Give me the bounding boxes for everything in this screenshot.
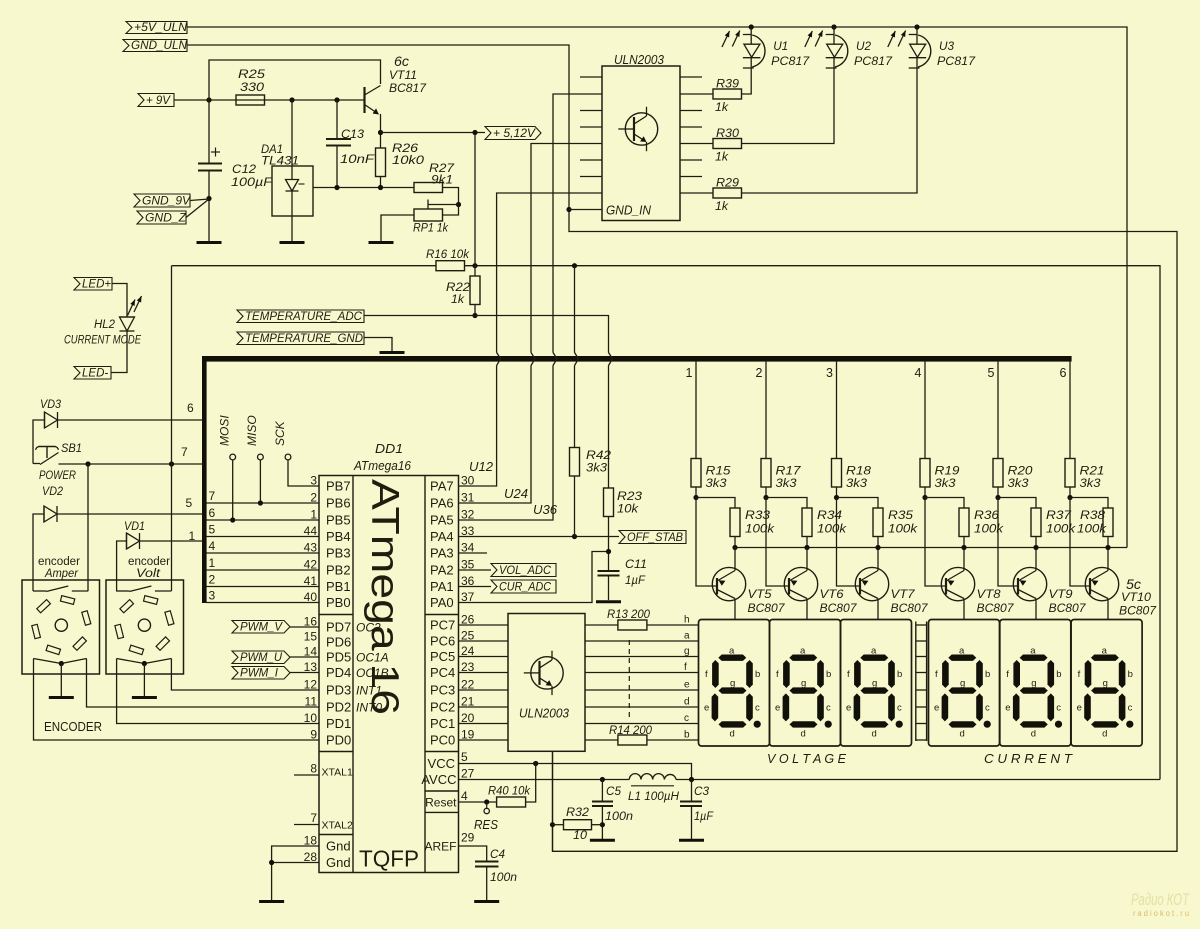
wire PC pin to ULN2003 (bottom) <box>459 672 509 674</box>
svg-text:100k: 100k <box>817 524 847 536</box>
wire emitter VT5 <box>734 548 736 571</box>
svg-text:BC817: BC817 <box>389 83 427 95</box>
svg-text:PC817: PC817 <box>937 54 976 68</box>
svg-text:12: 12 <box>304 678 318 692</box>
wire ULN2003 (top) output stub <box>680 126 702 128</box>
svg-text:1k: 1k <box>715 201 729 213</box>
wire GND_IN pin stub <box>569 209 602 211</box>
resistor R15 <box>691 459 701 488</box>
svg-text:C12: C12 <box>232 164 257 176</box>
resistor R38 <box>1103 508 1113 537</box>
encoder Volt top switch <box>116 590 129 592</box>
resistor R19 <box>920 459 930 488</box>
wire +5,12V down to R22 <box>474 133 476 277</box>
wire LED+ down <box>112 284 127 318</box>
wire R33 bottom to emitter rail <box>734 537 736 548</box>
svg-text:8: 8 <box>310 762 317 776</box>
svg-text:XTAL1: XTAL1 <box>322 767 353 779</box>
wire R16 line left to encoder column <box>172 265 437 267</box>
svg-text:41: 41 <box>304 574 318 588</box>
svg-text:R33: R33 <box>745 510 771 522</box>
svg-text:g: g <box>684 646 690 657</box>
wire PA2 to VOL_ADC <box>459 569 492 571</box>
svg-text:U1: U1 <box>773 39 788 53</box>
net flag PWM_U <box>232 651 290 664</box>
terminal MOSI <box>230 454 236 460</box>
wire PC pin to ULN2003 (bottom) <box>459 723 509 725</box>
wire ULN2003 (bottom) common to ground rail <box>552 751 554 851</box>
svg-text:TEMPERATURE_ADC: TEMPERATURE_ADC <box>245 311 363 323</box>
separator dashed line <box>628 640 630 721</box>
wire VD1 line to bus <box>140 540 204 542</box>
7-segment display digit 6 body <box>1071 620 1142 747</box>
wire bus to PB pin (net 2) <box>207 586 320 588</box>
svg-text:PC817: PC817 <box>854 54 893 68</box>
svg-text:U24: U24 <box>504 487 528 501</box>
7-segment display digit 5 body <box>1000 620 1071 747</box>
svg-text:R14 200: R14 200 <box>609 725 653 737</box>
svg-text:VT9: VT9 <box>1049 589 1074 601</box>
wire R42 top <box>574 266 576 353</box>
junction emitter rail VT7 <box>875 545 880 550</box>
svg-text:PA1: PA1 <box>430 579 454 594</box>
svg-text:PD6: PD6 <box>326 635 351 650</box>
wire VCC line <box>459 764 692 780</box>
wire emitter VT10 <box>1107 548 1109 571</box>
power flag GND_Z <box>137 211 186 224</box>
7-segment display digit 3 segments <box>860 655 888 661</box>
wire +5V_ULN rail to top right and down to emitter rail <box>187 27 1127 548</box>
wire PC pin to ULN2003 (bottom) <box>459 624 509 626</box>
ground encoder Volt <box>132 696 157 699</box>
wire emitter VT8 <box>963 548 965 571</box>
svg-text:4: 4 <box>209 539 216 553</box>
wire R27 right to RP1 right <box>443 188 459 216</box>
svg-text:VD2: VD2 <box>42 486 64 498</box>
svg-text:c: c <box>1056 703 1061 714</box>
svg-text:SB1: SB1 <box>61 443 82 455</box>
svg-text:BC807: BC807 <box>977 603 1015 615</box>
svg-text:C13: C13 <box>341 129 365 141</box>
junction encoder Amper common <box>59 661 64 666</box>
resistor R40 <box>497 797 526 807</box>
svg-text:BC807: BC807 <box>820 603 858 615</box>
svg-text:PWM_V: PWM_V <box>240 622 283 634</box>
svg-text:1k: 1k <box>715 102 729 114</box>
svg-text:f: f <box>1006 669 1009 680</box>
svg-text:42: 42 <box>304 558 318 572</box>
7-segment display digit 2 body <box>770 620 841 747</box>
svg-text:Amper: Amper <box>44 568 79 580</box>
wire bus to PB pin (net 1) <box>207 569 320 571</box>
svg-text:b: b <box>755 669 760 680</box>
svg-text:d: d <box>1031 729 1036 740</box>
wire C5 bottom to ground <box>601 806 603 839</box>
svg-text:PB6: PB6 <box>326 496 351 511</box>
svg-text:r a d i o k o t . r u: r a d i o k o t . r u <box>1133 909 1189 918</box>
svg-text:PB7: PB7 <box>326 479 351 494</box>
ground TEMPERATURE_GND <box>380 351 405 354</box>
junction R16/R22/+5.12V <box>472 263 477 268</box>
junction AVCC/C5 <box>600 777 605 782</box>
shunt regulator DA1 TL431 <box>272 166 313 216</box>
svg-text:g: g <box>960 678 965 689</box>
svg-text:R23: R23 <box>617 491 643 503</box>
junction +5,12V column <box>472 130 477 135</box>
wire segment d <box>585 706 699 708</box>
svg-text:R15: R15 <box>706 466 732 478</box>
wire LED- up <box>111 331 127 373</box>
svg-text:a: a <box>1102 646 1108 657</box>
wire segment f <box>585 672 699 674</box>
wire R16 column down <box>171 266 173 464</box>
svg-text:g: g <box>872 678 877 689</box>
bus tap 3 <box>836 362 838 459</box>
svg-text:100k: 100k <box>1077 524 1107 536</box>
svg-text:VT6: VT6 <box>820 589 845 601</box>
wire R42 bottom <box>574 476 576 537</box>
ground C3 <box>679 839 704 842</box>
wire +5,12V line <box>381 132 486 134</box>
wire segment e <box>585 689 699 691</box>
bus tap 1 <box>695 362 697 459</box>
svg-text:1µF: 1µF <box>694 811 714 823</box>
wire bus to PB pin (net 5) <box>207 536 320 538</box>
junction base node VT7 <box>834 495 839 500</box>
svg-text:a: a <box>871 646 877 657</box>
wire emitter VT6 <box>806 548 808 571</box>
svg-text:1k: 1k <box>715 152 729 164</box>
switch SB1 POWER <box>39 446 56 448</box>
net flag TEMPERATURE_ADC <box>237 310 364 323</box>
wire PC pin to ULN2003 (bottom) <box>459 656 509 658</box>
svg-text:POWER: POWER <box>39 470 76 482</box>
wire encoder Amper A to PD0 <box>34 666 320 740</box>
wire VT11 emitter <box>380 114 382 148</box>
svg-text:PA6: PA6 <box>430 496 454 511</box>
svg-text:c: c <box>897 703 902 714</box>
wire bus to PB pin (net 6) <box>207 519 320 521</box>
svg-text:encoder: encoder <box>128 556 170 568</box>
wire R38 bottom to emitter rail <box>1107 537 1109 548</box>
svg-text:g: g <box>730 678 735 689</box>
svg-text:BC807: BC807 <box>1119 606 1157 618</box>
wire C12 top <box>208 100 210 164</box>
resistor R33 <box>730 508 740 537</box>
svg-text:2: 2 <box>756 366 763 380</box>
svg-text:BC807: BC807 <box>891 603 929 615</box>
wire DA1 ref line <box>313 187 414 189</box>
svg-text:R25: R25 <box>238 69 266 81</box>
junction R23/C11/PA0 <box>606 549 611 554</box>
svg-text:9k1: 9k1 <box>431 175 453 187</box>
svg-text:GND_9V: GND_9V <box>142 196 191 208</box>
7-segment display digit 4 segments <box>948 655 976 661</box>
svg-text:1: 1 <box>686 366 693 380</box>
svg-text:R18: R18 <box>846 466 872 478</box>
bus tap 5 <box>997 362 999 459</box>
svg-text:encoder: encoder <box>38 556 80 568</box>
wire R26 bottom <box>380 177 382 188</box>
svg-text:3k3: 3k3 <box>1008 478 1030 490</box>
resistor R30 <box>680 143 713 145</box>
7-segment display digit 1 body <box>699 620 770 747</box>
wire PA5 to ULN2003 pin (U36) <box>459 366 554 521</box>
svg-text:ENCODER: ENCODER <box>44 719 102 734</box>
svg-text:PC2: PC2 <box>430 700 455 715</box>
junction AVCC/C3/VCC <box>689 777 694 782</box>
svg-text:5: 5 <box>988 366 995 380</box>
svg-text:INT0: INT0 <box>356 701 382 715</box>
ground encoder Amper <box>49 696 74 699</box>
junction GND_9V node <box>206 196 211 201</box>
svg-text:Радио КОТ: Радио КОТ <box>1131 890 1190 909</box>
wire C3 bottom to ground <box>691 806 693 839</box>
transistor VT6 BC807 <box>784 567 817 600</box>
wire R19 bottom to base node <box>924 487 926 498</box>
svg-text:R19: R19 <box>935 466 961 478</box>
svg-text:d: d <box>960 729 965 740</box>
terminal RES <box>486 802 488 808</box>
svg-text:VT7: VT7 <box>891 589 916 601</box>
svg-text:PD2: PD2 <box>326 700 351 715</box>
svg-text:PD7: PD7 <box>326 620 351 635</box>
wire R30 to U2 <box>742 70 835 144</box>
wire ULN2003 (top) output stub <box>680 110 702 112</box>
wire C13 top <box>336 100 338 139</box>
svg-text:R16 10k: R16 10k <box>426 249 470 261</box>
junction SB1/R16 column <box>169 461 174 466</box>
svg-text:AVCC: AVCC <box>421 772 456 787</box>
wire AVCC line <box>459 779 630 781</box>
bus tap 2 <box>765 362 767 459</box>
IC DD1 ATmega16 body <box>319 476 459 873</box>
svg-text:d: d <box>1102 729 1107 740</box>
svg-text:PD5: PD5 <box>326 650 351 665</box>
wire segment a <box>585 640 699 642</box>
power flag +5V_ULN <box>126 22 187 34</box>
encoder Amper rotor <box>55 619 67 631</box>
svg-text:V O L T A G E: V O L T A G E <box>767 752 847 766</box>
wire C11 to ground <box>608 576 610 601</box>
svg-text:10k0: 10k0 <box>392 155 425 167</box>
IC ULN2003 (top) body <box>602 66 680 221</box>
svg-text:10: 10 <box>304 711 318 725</box>
wire R21 bottom to base node <box>1069 487 1071 498</box>
svg-text:3k3: 3k3 <box>776 478 798 490</box>
svg-text:100k: 100k <box>974 524 1004 536</box>
junction R22/TEMPERATURE_ADC <box>472 313 477 318</box>
svg-text:3: 3 <box>209 589 216 603</box>
svg-text:a: a <box>959 646 965 657</box>
svg-text:U36: U36 <box>533 503 557 517</box>
svg-text:PD0: PD0 <box>326 733 351 748</box>
svg-text:27: 27 <box>461 767 475 781</box>
svg-text:f: f <box>776 669 779 680</box>
wire base node to R35 <box>837 498 879 509</box>
svg-text:h: h <box>684 615 690 626</box>
svg-text:b: b <box>826 669 831 680</box>
wire collector VT9 to display <box>1035 599 1037 620</box>
wire C3 top <box>691 780 693 802</box>
svg-text:b: b <box>897 669 902 680</box>
svg-text:6: 6 <box>209 506 216 520</box>
svg-text:6: 6 <box>187 401 194 415</box>
svg-text:f: f <box>935 669 938 680</box>
svg-text:PC6: PC6 <box>430 634 455 649</box>
svg-text:a: a <box>1030 646 1036 657</box>
power flag +9V <box>138 94 174 107</box>
wire base path VT5 <box>696 498 717 587</box>
svg-text:100n: 100n <box>490 872 517 884</box>
svg-text:PWM_U: PWM_U <box>240 652 283 664</box>
svg-text:1: 1 <box>209 556 216 570</box>
svg-text:TQFP: TQFP <box>359 846 419 872</box>
svg-text:e: e <box>934 703 939 714</box>
capacitor C11 <box>598 570 620 572</box>
net flag PWM_V <box>232 621 290 634</box>
capacitor C13 <box>326 138 351 140</box>
svg-text:DA1: DA1 <box>261 144 283 156</box>
svg-text:R39: R39 <box>716 79 740 91</box>
svg-text:VD1: VD1 <box>124 521 145 533</box>
encoder Amper common blades <box>34 659 62 664</box>
wire PC pin to ULN2003 (bottom) <box>459 739 509 741</box>
svg-text:a: a <box>729 646 735 657</box>
svg-text:10: 10 <box>573 830 588 842</box>
junction C5/R32 <box>600 822 605 827</box>
svg-text:b: b <box>1056 669 1061 680</box>
svg-text:100k: 100k <box>888 524 918 536</box>
wire C12 to ground <box>208 171 210 242</box>
wire PA6 to ULN2003 pin (U24) <box>459 366 532 504</box>
wire collector VT6 to display <box>806 599 808 620</box>
wire ULN2003 (top) output stub <box>680 159 702 161</box>
svg-text:PB1: PB1 <box>326 579 351 594</box>
transistor VT7 BC807 <box>855 567 888 600</box>
junction emitter rail VT6 <box>804 545 809 550</box>
wire emitter VT9 <box>1035 548 1037 571</box>
wire R22 bottom <box>474 305 476 316</box>
resistor R34 <box>802 508 812 537</box>
svg-text:1k: 1k <box>451 294 465 306</box>
junction encoder Volt common <box>142 661 147 666</box>
wire R29 to U3 <box>742 70 918 193</box>
svg-text:40: 40 <box>304 590 318 604</box>
svg-text:VT5: VT5 <box>748 589 773 601</box>
LED HL2 <box>120 316 135 318</box>
wire C5 top <box>601 780 603 802</box>
net flag CUR_ADC <box>491 580 556 593</box>
net flag TEMPERATURE_GND <box>237 332 364 345</box>
encoder Amper top switch <box>33 590 46 592</box>
ground C12 <box>197 241 222 244</box>
wire encoder Volt B to PD3 <box>171 666 319 690</box>
wire VD1 left down to encoder Volt <box>117 541 127 591</box>
wire C4 to ground <box>486 867 488 901</box>
encoder Volt rotor <box>138 619 150 631</box>
svg-text:f: f <box>847 669 850 680</box>
resistor R37 <box>1031 508 1041 537</box>
wire base node to R33 <box>696 498 735 509</box>
resistor R23 <box>604 488 614 517</box>
wire base path VT9 <box>998 498 1018 587</box>
net flag VOL_ADC <box>491 564 556 577</box>
resistor R36 <box>959 508 969 537</box>
wire MISO to PB6 <box>259 460 261 503</box>
wire base node to R36 <box>925 498 964 509</box>
bus horizontal <box>202 356 1072 362</box>
svg-text:d: d <box>730 729 735 740</box>
junction R26/ref <box>378 185 383 190</box>
wire RP1 left to ground <box>381 215 414 242</box>
wire R17 bottom to base node <box>765 487 767 498</box>
svg-text:OC1B: OC1B <box>356 666 389 680</box>
wire emitter VT7 <box>877 548 879 571</box>
7-segment display digit 1 segments <box>718 655 746 661</box>
wire ULN2003 (top) input stub <box>580 76 602 78</box>
svg-text:U2: U2 <box>856 39 871 53</box>
svg-text:3k3: 3k3 <box>706 478 728 490</box>
wire PA4 to OFF_STAB <box>459 536 620 538</box>
svg-text:ULN2003: ULN2003 <box>519 707 569 721</box>
wire base node to R37 <box>998 498 1036 509</box>
svg-text:PB0: PB0 <box>326 595 351 610</box>
junction R27/RP1 wiper <box>456 202 461 207</box>
junction SB1/encoder Amper switch <box>85 461 90 466</box>
capacitor C3 <box>680 801 702 803</box>
svg-text:+5V_ULN: +5V_ULN <box>134 22 188 34</box>
power flag +5,12V <box>485 127 541 140</box>
svg-text:R13 200: R13 200 <box>607 609 651 621</box>
wire ULN2003 (top) input stub <box>580 159 602 161</box>
svg-text:g: g <box>1103 678 1108 689</box>
svg-text:Reset: Reset <box>425 796 457 810</box>
display group connector ladder <box>915 622 917 742</box>
wire segment c <box>585 723 699 725</box>
rotary encoder Amper box <box>22 580 100 674</box>
junction ADC ref / R42 column <box>572 263 577 268</box>
7-segment display digit 3 body <box>841 620 912 747</box>
resistor R22 <box>470 276 480 305</box>
svg-text:PB4: PB4 <box>326 529 351 544</box>
resistor R27 <box>414 183 443 193</box>
svg-text:PA0: PA0 <box>430 595 454 610</box>
svg-text:e: e <box>704 703 709 714</box>
svg-text:XTAL2: XTAL2 <box>322 820 353 832</box>
inductor L1 100uH <box>629 774 676 780</box>
wire DA1 anode to ground <box>291 216 293 242</box>
svg-text:1: 1 <box>310 508 317 522</box>
rotary encoder Volt box <box>106 580 184 674</box>
power flag GND_9V <box>134 194 190 207</box>
net flag LED+ <box>74 278 112 291</box>
svg-text:PB5: PB5 <box>326 513 351 528</box>
svg-text:+ 5,12V: + 5,12V <box>493 128 536 140</box>
svg-text:PD1: PD1 <box>326 716 351 731</box>
svg-text:PWM_I: PWM_I <box>240 668 279 680</box>
svg-text:GND_IN: GND_IN <box>606 204 652 218</box>
svg-text:3k3: 3k3 <box>1080 478 1102 490</box>
junction Gnd pins <box>269 860 274 865</box>
wire R40 to VCC <box>526 764 536 803</box>
transistor VT10 BC807 <box>1085 567 1118 600</box>
svg-text:7: 7 <box>181 445 188 459</box>
terminal MISO <box>258 454 264 460</box>
wire segment g <box>585 656 699 658</box>
wire bus to PB pin (net 7) <box>207 502 320 504</box>
wire encoder Amper B to PD2 <box>87 666 320 707</box>
